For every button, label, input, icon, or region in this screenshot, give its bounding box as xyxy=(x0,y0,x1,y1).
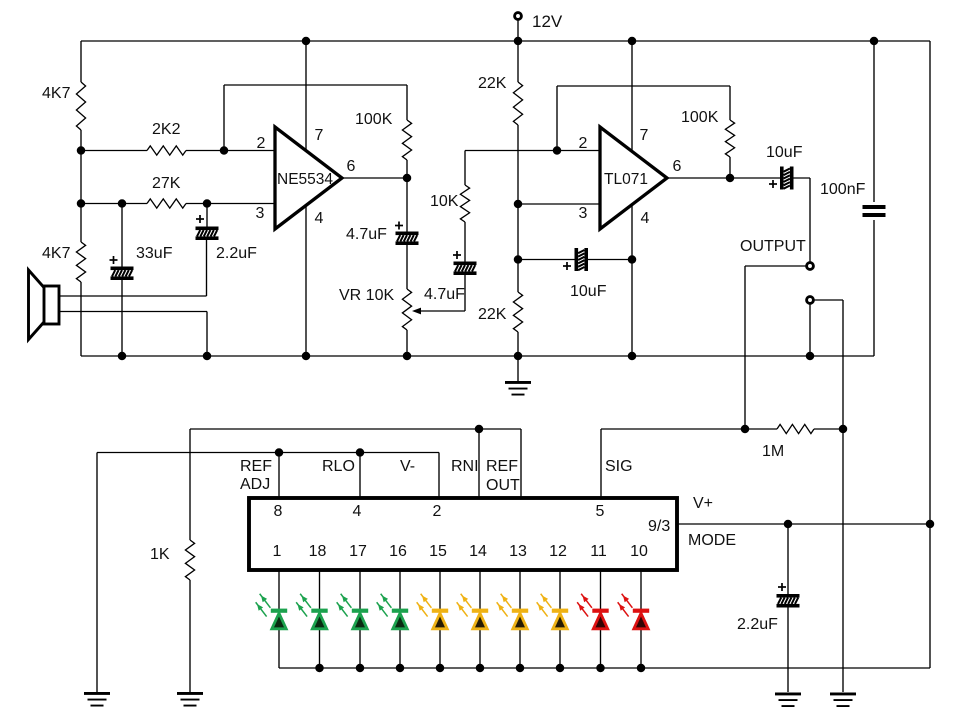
label 2.2uF C8 xyxy=(737,616,778,633)
wire feedback up from pin2 node xyxy=(223,85,225,151)
wire +12V top rail xyxy=(81,40,930,42)
capacitor C1 33uF xyxy=(110,204,134,357)
svg-text:RLO: RLO xyxy=(322,458,355,475)
svg-text:4: 4 xyxy=(641,210,650,227)
node LED rail 9 xyxy=(596,664,605,673)
pin 6 label U1 xyxy=(347,158,356,175)
label MODE xyxy=(688,532,736,549)
wire down to OUTPUT terminal xyxy=(809,178,811,263)
svg-text:1: 1 xyxy=(273,543,282,560)
label RLO xyxy=(322,458,355,475)
label 2.2uF C2 xyxy=(216,245,257,262)
svg-text:22K: 22K xyxy=(478,75,507,92)
svg-text:10K: 10K xyxy=(430,193,459,210)
resistor R11 1M xyxy=(777,424,843,433)
node LED rail 6 xyxy=(476,664,485,673)
pin 8 label xyxy=(274,503,283,520)
label 1M xyxy=(762,443,784,460)
pin 4 label U2 xyxy=(641,210,650,227)
resistor R12 1K xyxy=(185,429,194,692)
label 4.7uF C4 xyxy=(424,286,465,303)
LED D8 xyxy=(537,594,569,629)
svg-text:4: 4 xyxy=(353,503,362,520)
svg-text:15: 15 xyxy=(429,543,447,560)
label V+ xyxy=(693,495,713,512)
label 10K R6 xyxy=(430,193,459,210)
svg-text:11: 11 xyxy=(590,543,607,560)
svg-text:17: 17 xyxy=(349,543,367,560)
label REF ADJ xyxy=(240,458,272,493)
resistor R9 22K (lower) xyxy=(513,260,522,357)
wire OUTPUT return right xyxy=(814,299,844,301)
node rail VR10K xyxy=(403,352,412,361)
svg-text:27K: 27K xyxy=(152,175,181,192)
node RNI junction xyxy=(475,425,484,434)
node LED rail 10 xyxy=(637,664,646,673)
wire LED pin 17 drop xyxy=(359,570,361,668)
wire LED pin 18 drop xyxy=(319,570,321,668)
pin 3 label U2 xyxy=(579,205,588,222)
pin 7 label U1 xyxy=(315,127,324,144)
wire 2K2 to pin2 xyxy=(224,150,275,152)
pin 12 label xyxy=(549,543,567,560)
wire LED pin 12 drop xyxy=(559,570,561,668)
label 22K R9 xyxy=(478,306,507,323)
svg-text:100K: 100K xyxy=(355,111,393,128)
node rail output return xyxy=(806,352,815,361)
wire ground rail top section xyxy=(81,355,874,357)
wire U2 output xyxy=(667,177,730,179)
svg-text:4.7uF: 4.7uF xyxy=(346,226,387,243)
node TL output xyxy=(726,174,735,183)
wire x81 to 27K xyxy=(81,203,122,205)
node top rail NE pin7 xyxy=(302,37,311,46)
node top rail 100nF xyxy=(870,37,879,46)
ground lower left xyxy=(84,692,110,707)
svg-text:4K7: 4K7 xyxy=(42,245,71,262)
capacitor C4 4.7uF xyxy=(453,222,477,275)
node rail 22K xyxy=(514,352,523,361)
speaker MIC xyxy=(29,270,60,340)
svg-text:10: 10 xyxy=(630,543,648,560)
node 1M right xyxy=(839,425,848,434)
wire TL071 pin7-pin4 column xyxy=(631,41,633,356)
svg-text:RNI: RNI xyxy=(451,458,479,475)
label 27K xyxy=(152,175,181,192)
node MODE 2.2uF xyxy=(784,520,793,529)
svg-text:7: 7 xyxy=(315,127,324,144)
svg-text:TL071: TL071 xyxy=(604,171,648,188)
svg-text:VR 10K: VR 10K xyxy=(339,287,394,304)
node TL pin2 feedback xyxy=(553,146,562,155)
svg-text:2: 2 xyxy=(257,135,266,152)
svg-text:3: 3 xyxy=(256,205,265,222)
capacitor C5 10uF xyxy=(518,248,632,271)
resistor R8 22K (upper) xyxy=(513,41,522,204)
label 10uF C6 xyxy=(766,144,803,161)
node 1M left / output link xyxy=(741,425,750,434)
label OUTPUT xyxy=(740,238,806,255)
node LED rail 8 xyxy=(556,664,565,673)
wire LED anode rail xyxy=(279,667,930,669)
pin 3 label U1 xyxy=(256,205,265,222)
wire right edge V+ drop xyxy=(929,41,931,668)
svg-text:18: 18 xyxy=(309,543,327,560)
pin 1 label xyxy=(273,543,282,560)
wire Vminus pin drop xyxy=(438,453,440,499)
svg-text:2: 2 xyxy=(433,503,442,520)
label 2K2 xyxy=(152,121,181,138)
LED D4 xyxy=(377,594,409,629)
svg-text:SIG: SIG xyxy=(605,458,633,475)
svg-text:12V: 12V xyxy=(532,12,563,31)
svg-text:6: 6 xyxy=(673,158,682,175)
pin 16 label xyxy=(389,543,407,560)
label V- xyxy=(400,458,415,475)
wire LED pin 1 drop xyxy=(278,570,280,668)
label RNI xyxy=(451,458,479,475)
pin 14 label xyxy=(469,543,487,560)
wire LED pin 11 drop xyxy=(600,570,602,668)
wire net REFADJ-RLO-Vminus xyxy=(97,452,439,454)
LED D1 xyxy=(256,594,288,629)
capacitor C2 2.2uF xyxy=(196,204,219,297)
wire net 1K-RNI-REFOUT xyxy=(190,428,521,430)
ground below C8 xyxy=(775,693,801,708)
op-amp U1 NE5534 xyxy=(275,127,342,229)
node 10uF right xyxy=(628,255,637,264)
node LED rail 7 xyxy=(516,664,525,673)
svg-text:14: 14 xyxy=(469,543,487,560)
svg-text:5: 5 xyxy=(596,503,605,520)
capacitor C8 2.2uF xyxy=(777,524,800,692)
wire 27K node to pin3 xyxy=(207,203,275,205)
wire REFOUT pin drop xyxy=(520,429,522,498)
svg-text:4K7: 4K7 xyxy=(42,85,71,102)
capacitor C6 10uF output xyxy=(730,167,810,190)
svg-text:100K: 100K xyxy=(681,109,719,126)
node RLO junction xyxy=(356,448,365,457)
pin 4 label U1 xyxy=(315,210,324,227)
svg-text:4.7uF: 4.7uF xyxy=(424,286,465,303)
LED D6 xyxy=(457,594,489,629)
wire LED pin 13 drop xyxy=(519,570,521,668)
svg-text:2: 2 xyxy=(579,135,588,152)
label 22K R8 xyxy=(478,75,507,92)
svg-text:V-: V- xyxy=(400,458,415,475)
LED D10 xyxy=(618,594,650,629)
label 10uF C5 xyxy=(570,283,607,300)
svg-text:16: 16 xyxy=(389,543,407,560)
wire LED pin 14 drop xyxy=(479,570,481,668)
node top rail 12V xyxy=(514,37,523,46)
node LED rail 4 xyxy=(396,664,405,673)
svg-text:V+: V+ xyxy=(693,495,713,512)
wire RLO pin drop xyxy=(359,453,361,499)
node NE output xyxy=(403,174,412,183)
wire OUTPUT tip link down xyxy=(744,266,746,429)
svg-text:ADJ: ADJ xyxy=(240,476,270,493)
wire NE5534 pin7-pin4 column xyxy=(305,41,307,356)
svg-text:OUTPUT: OUTPUT xyxy=(740,238,806,255)
label 100nF xyxy=(820,181,866,198)
wire LED pin 15 drop xyxy=(439,570,441,668)
node rail NE pin4 xyxy=(302,352,311,361)
svg-text:22K: 22K xyxy=(478,306,507,323)
pin 2 label U1 xyxy=(257,135,266,152)
wire feedback top TL071 xyxy=(557,85,730,87)
wire U1 output xyxy=(342,177,407,179)
label VR 10K xyxy=(339,287,394,304)
wire RNI pin drop xyxy=(478,429,480,498)
node 2K2 left xyxy=(77,146,86,155)
op-amp U2 TL071 xyxy=(600,127,667,229)
label NE5534 xyxy=(277,171,333,188)
wire OUTPUT tip link left xyxy=(745,265,807,267)
node 2K2 right feedback xyxy=(220,146,229,155)
node top rail TL pin7 xyxy=(628,37,637,46)
svg-text:REF: REF xyxy=(486,458,518,475)
LED D7 xyxy=(497,594,529,629)
node MODE right edge xyxy=(926,520,935,529)
node TL pin3 xyxy=(514,200,523,209)
label 4.7uF C3 xyxy=(346,226,387,243)
label REF OUT xyxy=(486,458,520,494)
node LED rail 3 xyxy=(356,664,365,673)
wire REFADJ pin drop xyxy=(278,453,280,499)
wiper arrow VR10K xyxy=(412,275,465,314)
pin 13 label xyxy=(509,543,527,560)
node 10uF left xyxy=(514,255,523,264)
terminal 12V supply xyxy=(515,13,522,41)
label 12V xyxy=(532,12,563,31)
node 27K x81 xyxy=(77,199,86,208)
svg-text:12: 12 xyxy=(549,543,567,560)
pin 18 label xyxy=(309,543,327,560)
resistor R5 100K NE5534 xyxy=(402,85,411,178)
svg-text:10uF: 10uF xyxy=(570,283,607,300)
potentiometer VR 10K xyxy=(402,245,411,356)
resistor R4 27K xyxy=(122,199,207,208)
pin 6 label U2 xyxy=(673,158,682,175)
ground below 1M xyxy=(830,693,856,708)
node REFADJ junction xyxy=(275,448,284,457)
svg-text:2.2uF: 2.2uF xyxy=(737,616,778,633)
node 33uF top xyxy=(118,199,127,208)
pin 11 label xyxy=(590,543,607,560)
pin 5 label xyxy=(596,503,605,520)
svg-text:6: 6 xyxy=(347,158,356,175)
resistor R6 10K xyxy=(460,151,469,223)
wire 1M right column xyxy=(842,300,844,692)
resistor R10 100K TL071 xyxy=(725,86,734,178)
svg-text:REF: REF xyxy=(240,458,272,475)
label 1K xyxy=(150,546,170,563)
svg-text:2K2: 2K2 xyxy=(152,121,181,138)
node 2.2uF top xyxy=(203,199,212,208)
wire OUTPUT return down to rail xyxy=(809,304,811,357)
node LED rail 5 xyxy=(436,664,445,673)
wire TL071 pin3 xyxy=(518,203,600,205)
terminal OUTPUT tip xyxy=(807,263,814,270)
svg-text:3: 3 xyxy=(579,205,588,222)
label 9/3 xyxy=(648,518,670,535)
capacitor C3 4.7uF xyxy=(395,178,419,245)
svg-text:33uF: 33uF xyxy=(136,245,173,262)
node rail TL pin4 xyxy=(628,352,637,361)
wire feedback top NE5534 xyxy=(224,84,407,86)
resistor R3 2K2 xyxy=(81,146,224,155)
pin 17 label xyxy=(349,543,367,560)
terminal OUTPUT return xyxy=(807,297,814,304)
LED D9 xyxy=(577,594,609,629)
label 4K7 R1 xyxy=(42,85,71,102)
resistor R2 4K7 (lower) xyxy=(76,203,85,356)
pin 2 label xyxy=(433,503,442,520)
svg-text:100nF: 100nF xyxy=(820,181,866,198)
node LED rail 2 xyxy=(315,664,324,673)
svg-text:8: 8 xyxy=(274,503,283,520)
IC U3 bar-graph driver xyxy=(249,498,677,570)
label 100K R10 xyxy=(681,109,719,126)
svg-text:9/3: 9/3 xyxy=(648,518,670,535)
label SIG xyxy=(605,458,633,475)
svg-text:MODE: MODE xyxy=(688,532,736,549)
ground below 1K xyxy=(177,692,203,707)
wire LED pin 10 drop xyxy=(640,570,642,668)
svg-text:4: 4 xyxy=(315,210,324,227)
svg-text:2.2uF: 2.2uF xyxy=(216,245,257,262)
wire left ground drop x97 xyxy=(96,453,98,693)
wire speaker bottom to ground rail xyxy=(206,312,208,357)
label 100K R5 xyxy=(355,111,393,128)
node rail speaker xyxy=(203,352,212,361)
pin 10 label xyxy=(630,543,648,560)
wire MODE/V+ net xyxy=(677,523,930,525)
wire 10K to TL071 pin2 xyxy=(465,150,600,152)
wire SIG pin drop xyxy=(600,429,602,498)
svg-text:1M: 1M xyxy=(762,443,784,460)
node rail 33uF xyxy=(118,352,127,361)
LED D5 xyxy=(417,594,449,629)
wire x518 pin3 to 10uF node xyxy=(517,204,519,260)
wire feedback up from TL pin2 node xyxy=(556,86,558,151)
LED D3 xyxy=(337,594,369,629)
label TL071 xyxy=(604,171,648,188)
svg-text:NE5534: NE5534 xyxy=(277,171,333,188)
pin 2 label U2 xyxy=(579,135,588,152)
svg-text:10uF: 10uF xyxy=(766,144,803,161)
pin 4 label xyxy=(353,503,362,520)
svg-text:13: 13 xyxy=(509,543,527,560)
LED D2 xyxy=(296,594,328,629)
pin 7 label U2 xyxy=(640,127,649,144)
svg-text:OUT: OUT xyxy=(486,477,520,494)
capacitor C7 100nF xyxy=(863,41,886,356)
wire LED pin 16 drop xyxy=(399,570,401,668)
pin 15 label xyxy=(429,543,447,560)
label 4K7 R2 xyxy=(42,245,71,262)
wire speaker bottom lead xyxy=(59,311,207,313)
wire x81 between 2K2 and 27K nodes xyxy=(80,151,82,203)
label 33uF xyxy=(136,245,173,262)
svg-text:7: 7 xyxy=(640,127,649,144)
ground top section xyxy=(505,356,531,396)
wire speaker top lead xyxy=(59,295,207,297)
svg-text:1K: 1K xyxy=(150,546,170,563)
resistor R1 4K7 (upper) xyxy=(76,41,85,151)
wire SIG to 1M xyxy=(601,428,777,430)
